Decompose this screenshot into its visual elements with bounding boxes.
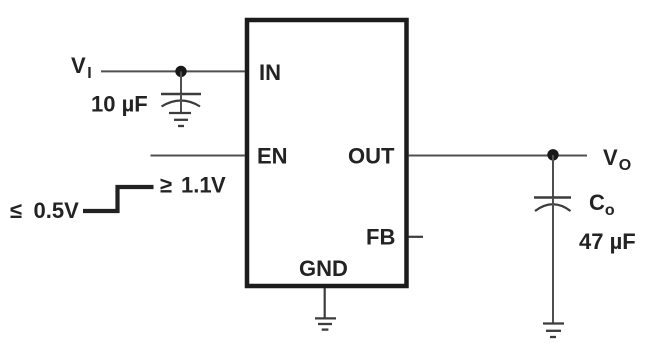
svg-text:1.1: 1.1 [181, 173, 212, 198]
enable step waveform [83, 187, 154, 211]
svg-text:V: V [211, 173, 226, 198]
wire VI to IN [101, 70, 245, 72]
regulator IC U1 box [247, 20, 407, 286]
wire node to Co plate [552, 155, 554, 198]
capacitor C1 10uF [161, 94, 201, 113]
node junction at input cap [175, 66, 186, 77]
ground at GND pin [315, 318, 336, 329]
ground at Co [543, 324, 564, 338]
svg-text:47 µF: 47 µF [579, 229, 636, 254]
svg-text:OUT: OUT [348, 144, 395, 169]
node junction at output cap [547, 149, 558, 160]
svg-text:≤: ≤ [10, 198, 22, 223]
svg-text:GND: GND [299, 256, 348, 281]
wire GND pin down [324, 288, 326, 318]
wire node to C1 plate [180, 71, 182, 94]
wire to EN [151, 155, 246, 157]
svg-text:10 µF: 10 µF [91, 92, 148, 117]
svg-text:0.5V: 0.5V [34, 198, 80, 223]
capacitor Co 47uF [534, 198, 571, 323]
FB stub wire [409, 236, 424, 238]
svg-text:EN: EN [257, 144, 288, 169]
ground at C1 [169, 113, 191, 126]
svg-text:≥: ≥ [160, 173, 172, 198]
wire OUT to VO [409, 155, 588, 157]
svg-text:FB: FB [366, 225, 395, 250]
svg-text:IN: IN [259, 60, 281, 85]
